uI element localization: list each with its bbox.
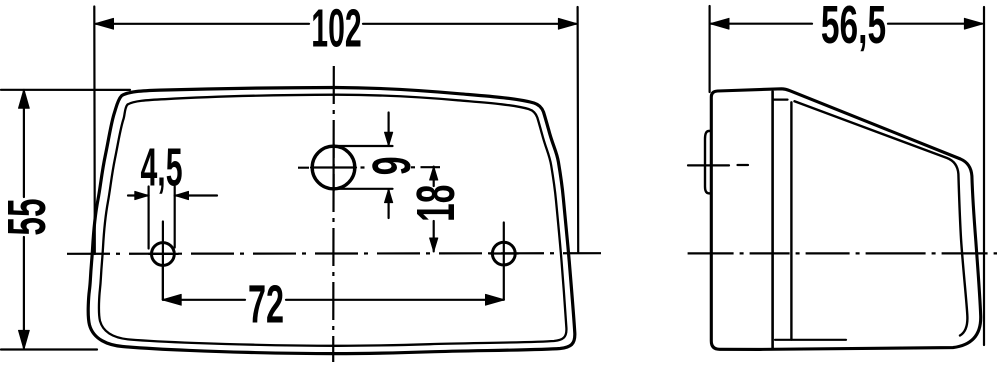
svg-text:4,5: 4,5 <box>140 137 182 197</box>
dim 55: bottom extension line <box>1 348 97 350</box>
side view centerline dash-dot <box>688 252 997 254</box>
solid vertical line through right small hole <box>503 223 505 300</box>
dim 72: dimension line right part <box>286 299 503 301</box>
side view inner lens line (slope) <box>795 101 968 335</box>
dim 4,5: left leader line <box>128 194 149 196</box>
dim 72: dimension line left part <box>164 299 246 301</box>
dim 4,5: right arrowhead pointing left <box>175 191 189 199</box>
dim 56,5: left extension line <box>708 6 710 92</box>
dim 56,5: dimension line right part <box>888 23 982 25</box>
svg-text:56,5: 56,5 <box>821 0 886 55</box>
side view inner bottom line <box>775 339 846 341</box>
dim 55: dimension line upper part <box>23 91 25 197</box>
main vertical centerline of front view x=333.5 <box>332 66 335 362</box>
dim 9: top tangent line <box>334 145 393 147</box>
side view outer contour <box>711 89 980 350</box>
dim 56,5: left arrowhead <box>710 18 729 29</box>
dim 9: arrowhead up <box>385 189 393 203</box>
svg-text:72: 72 <box>248 275 284 334</box>
dim 4,5: right extension tick <box>174 187 176 248</box>
dim 56,5: dimension line left part <box>711 23 812 25</box>
dim 102: dimension line left part <box>96 23 309 25</box>
dim 102: right extension line <box>576 7 579 252</box>
centerline solid crossing left hole <box>149 253 178 255</box>
side view stud crosshair horizontal <box>688 164 748 167</box>
dim 56,5: right extension line <box>983 7 985 345</box>
dim 102: right arrowhead <box>558 18 577 29</box>
side view vertical parting line B <box>790 102 792 339</box>
lamp front view inner contour <box>99 95 567 346</box>
lamp front view outer contour <box>88 88 575 354</box>
dim 102: dimension line right part <box>363 23 576 25</box>
dim 72: left extension (through left hole) <box>162 266 164 300</box>
side view top step tick <box>774 98 788 100</box>
dim 18: lower segment with arrow down <box>433 221 435 251</box>
small hole left (diam 4,5) <box>152 243 175 266</box>
dim 56,5: right arrowhead <box>964 18 983 29</box>
side view left mounting tab <box>705 131 711 194</box>
dim 9: upper arrow line <box>388 113 390 146</box>
svg-text:55: 55 <box>0 198 57 235</box>
svg-text:18: 18 <box>405 185 466 222</box>
centerline solid crossing right hole <box>490 252 518 254</box>
vertical centerline solid crossing big hole <box>333 144 335 191</box>
dim 4,5: right leader line <box>175 194 217 196</box>
dim 72: left arrowhead <box>162 294 181 305</box>
dim 55: bottom arrowhead <box>19 330 30 349</box>
dim 9: bottom tangent line <box>334 188 393 190</box>
dim 55: top arrowhead <box>19 89 30 108</box>
dim 55: top extension line <box>1 89 130 91</box>
dim 72: right arrowhead <box>486 294 505 305</box>
big circle horizontal centerline dash-dot <box>298 166 440 169</box>
dim 4,5: left arrowhead pointing right <box>135 191 149 199</box>
small hole right <box>492 242 515 265</box>
dim 102: left arrowhead <box>95 18 114 29</box>
solid vertical line through left small hole <box>162 222 164 300</box>
dim 102: left extension line <box>93 7 96 255</box>
main horizontal centerline dash-dot y=253.6 <box>67 252 601 255</box>
side view vertical parting line A <box>771 92 774 349</box>
dim 18: upper segment with arrow up <box>433 167 435 186</box>
dim 9: lower arrow line <box>388 189 390 218</box>
big hole circle (diam 9) <box>312 146 355 189</box>
dim 9: arrowhead down <box>385 132 393 146</box>
svg-text:9: 9 <box>361 156 422 175</box>
horizontal centerline solid crossing big hole <box>311 166 356 168</box>
dim 55: dimension line lower part <box>23 237 25 348</box>
svg-text:102: 102 <box>311 0 361 59</box>
dim 4,5: left extension tick <box>148 187 150 249</box>
